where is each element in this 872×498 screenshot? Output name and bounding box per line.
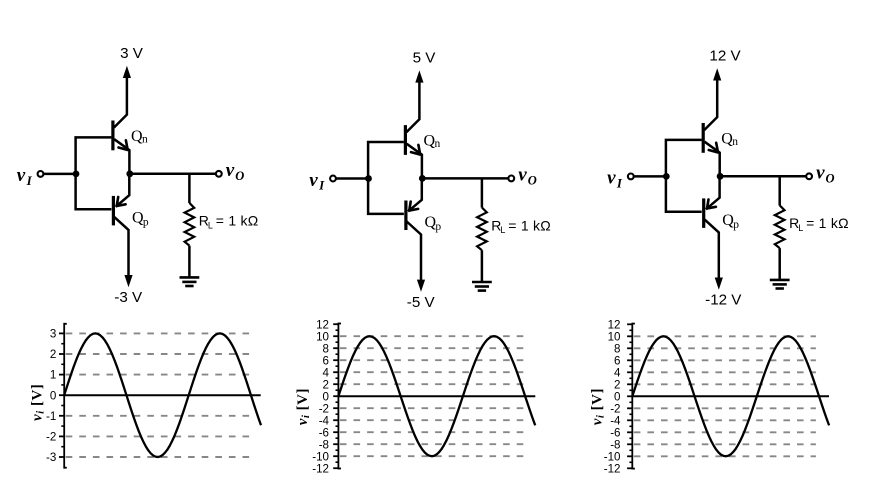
positive supply arrow of circuit 2 (415, 70, 423, 82)
junction dot at output node (circuit 2) (419, 175, 426, 182)
svg-text:-12: -12 (604, 462, 621, 475)
svg-text:I: I (26, 173, 33, 188)
svg-text:1: 1 (50, 369, 56, 382)
output terminal vO circle (circuit 3) (806, 173, 812, 179)
input sine waveform of plot 1 (64, 333, 261, 457)
svg-text:n: n (435, 138, 441, 150)
transistor Qp (circuit 2) emitter wire and arrow (408, 179, 422, 211)
junction dot at base node (circuit 1) (73, 171, 80, 178)
ground symbol (circuit 1) (180, 276, 200, 279)
negative supply arrow of circuit 2 (417, 280, 425, 292)
wire: base rail joining bases of Qn and Qp (circuit 3) (666, 140, 702, 212)
wire: output node to vO terminal (circuit 2) (422, 177, 508, 180)
transistor Qp (pnp, circuit 3) base bar (702, 198, 705, 228)
transistor Qn (circuit 2) emitter wire and arrow (407, 144, 422, 178)
svg-text:= 1 kΩ: = 1 kΩ (508, 217, 551, 233)
svg-text:3 V: 3 V (120, 45, 144, 62)
wire: vI terminal to base node (circuit 2) (336, 177, 367, 180)
y-axis label vi [V] of plot 3 (590, 388, 607, 425)
gridlines (dashed) of plot 3 (634, 383, 816, 385)
x-axis (0 V line) of plot 3 (632, 395, 829, 397)
svg-text:-12: -12 (312, 462, 329, 475)
x-axis (0 V line) of plot 1 (64, 394, 261, 396)
input terminal vI circle (circuit 3) (628, 174, 634, 180)
svg-text:p: p (435, 221, 441, 233)
transistor Qn (npn, circuit 3) base bar (702, 123, 705, 153)
transistor Qn (circuit 3) emitter wire and arrow (705, 142, 720, 176)
junction dot at base node (circuit 3) (663, 173, 670, 180)
junction dot at output node (circuit 3) (717, 173, 724, 180)
wire: resistor RL to ground (circuit 1) (188, 246, 191, 278)
svg-text:v: v (518, 164, 527, 185)
svg-text:-3 V: -3 V (114, 289, 143, 306)
wire: collector of Qp (circuit 1) to negative supply (114, 217, 128, 277)
svg-text:L: L (500, 225, 505, 235)
svg-text:0: 0 (50, 389, 56, 402)
svg-text:-12 V: -12 V (705, 292, 742, 309)
y-axis of plot 1 (63, 323, 65, 469)
svg-text:I: I (616, 176, 623, 191)
wire: collector of Qn (circuit 1) to positive supply (114, 76, 127, 128)
wire: collector of Qp (circuit 2) to negative supply (407, 222, 421, 282)
svg-text:-5 V: -5 V (407, 294, 436, 311)
transistor Qp (pnp, circuit 1) base bar (112, 196, 115, 226)
svg-text:p: p (143, 216, 149, 228)
svg-text:v: v (309, 170, 318, 191)
svg-text:O: O (528, 173, 537, 187)
input terminal vI circle (circuit 2) (330, 176, 336, 182)
transistor Qp (pnp, circuit 2) base bar (404, 201, 407, 231)
wire: base rail joining bases of Qn and Qp (circuit 1) (76, 137, 112, 209)
wire: collector of Qn (circuit 2) to positive supply (406, 80, 419, 132)
junction dot at output node (circuit 1) (126, 170, 133, 177)
svg-text:I: I (318, 178, 325, 193)
wire: output node to vO terminal (circuit 1) (130, 173, 216, 176)
gridlines (dashed) of plot 2 (340, 383, 524, 385)
svg-text:v: v (816, 162, 825, 183)
svg-text:O: O (826, 171, 835, 185)
transistor Qn (npn, circuit 2) base bar (404, 125, 407, 155)
wire: output node down to resistor RL (circuit 1) (188, 174, 191, 203)
svg-text:5 V: 5 V (413, 50, 437, 67)
positive supply arrow of circuit 3 (713, 68, 721, 80)
input sine waveform of plot 3 (632, 336, 829, 456)
x-axis (0 V line) of plot 2 (338, 395, 535, 397)
negative supply arrow of circuit 3 (715, 278, 723, 290)
resistor RL (circuit 2) zigzag body (477, 208, 487, 251)
svg-text:L: L (208, 220, 213, 230)
output terminal vO circle (circuit 2) (508, 176, 514, 182)
y-axis ticks of plot 1 (59, 456, 64, 458)
svg-text:vi [V]: vi [V] (30, 384, 47, 421)
y-axis of plot 2 (337, 323, 339, 470)
gridlines (dashed) of plot 1 (66, 374, 252, 376)
wire: base rail joining bases of Qn and Qp (circuit 2) (368, 142, 404, 214)
wire: resistor RL to ground (circuit 2) (481, 250, 484, 282)
y-axis ticks of plot 3 (627, 467, 632, 469)
wire: vI terminal to base node (circuit 3) (634, 175, 665, 178)
svg-text:-2: -2 (46, 431, 56, 444)
transistor Qp (circuit 3) emitter wire and arrow (706, 177, 720, 209)
wire: vI terminal to base node (circuit 1) (44, 173, 75, 176)
svg-text:v: v (607, 168, 616, 189)
wire: resistor RL to ground (circuit 3) (778, 248, 781, 280)
svg-text:= 1 kΩ: = 1 kΩ (806, 215, 849, 231)
y-axis of plot 3 (631, 323, 633, 470)
y-axis ticks of plot 2 (333, 467, 338, 469)
svg-text:v: v (17, 165, 26, 186)
svg-text:O: O (235, 169, 244, 183)
input terminal vI circle (circuit 1) (38, 171, 44, 177)
wire: collector of Qp (circuit 3) to negative supply (705, 219, 719, 279)
svg-text:n: n (142, 133, 148, 145)
y-axis label vi [V] of plot 2 (295, 388, 312, 425)
input sine waveform of plot 2 (338, 336, 535, 456)
wire: output node to vO terminal (circuit 3) (720, 175, 806, 178)
output terminal vO circle (circuit 1) (216, 171, 222, 177)
resistor RL (circuit 3) zigzag body (775, 205, 785, 248)
y-axis label vi [V] of plot 1 (30, 384, 47, 421)
svg-text:vi [V]: vi [V] (590, 388, 607, 425)
positive supply arrow of circuit 1 (123, 66, 131, 78)
negative supply arrow of circuit 1 (124, 275, 132, 287)
svg-text:-3: -3 (46, 451, 56, 464)
transistor Qn (circuit 1) emitter wire and arrow (114, 139, 129, 173)
svg-text:= 1 kΩ: = 1 kΩ (216, 213, 259, 229)
wire: output node down to resistor RL (circuit 3) (778, 176, 781, 205)
svg-text:vi [V]: vi [V] (295, 388, 312, 425)
resistor RL (circuit 1) zigzag body (185, 203, 195, 246)
wire: collector of Qn (circuit 3) to positive supply (704, 78, 717, 130)
transistor Qn (npn, circuit 1) base bar (111, 121, 114, 151)
ground symbol (circuit 3) (770, 279, 790, 282)
svg-text:v: v (226, 160, 235, 181)
svg-text:12 V: 12 V (709, 48, 741, 65)
svg-text:2: 2 (50, 348, 56, 361)
svg-text:3: 3 (50, 328, 56, 341)
wire: output node down to resistor RL (circuit 2) (481, 178, 484, 207)
ground symbol (circuit 2) (472, 281, 492, 284)
svg-text:n: n (732, 136, 738, 148)
transistor Qp (circuit 1) emitter wire and arrow (116, 175, 130, 207)
svg-text:L: L (798, 223, 803, 233)
svg-text:-1: -1 (46, 410, 56, 423)
junction dot at base node (circuit 2) (365, 175, 372, 182)
svg-text:p: p (733, 219, 739, 231)
